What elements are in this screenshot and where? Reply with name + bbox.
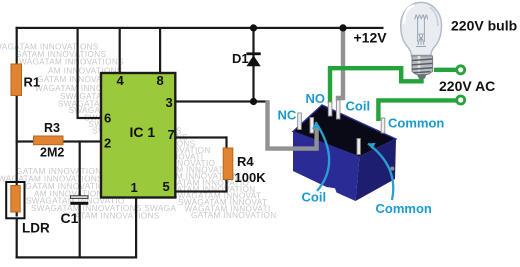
- svg-text:Coil: Coil: [302, 190, 327, 205]
- resistor R3 body: [34, 136, 64, 145]
- wire R4 vertical: [225, 136, 227, 192]
- svg-text:GATAM INNOVAT: GATAM INNOVAT: [37, 75, 107, 84]
- wire pin2 horizontal through R3: [16, 140, 103, 142]
- svg-text:7: 7: [168, 127, 175, 142]
- svg-text:+12V: +12V: [354, 30, 388, 46]
- resistor R1: [11, 64, 22, 96]
- bulb glass shading: [404, 6, 414, 25]
- node junction dot +12V: [339, 24, 346, 31]
- capacitor C1 top plate: [71, 196, 89, 199]
- svg-text:C1: C1: [61, 210, 79, 226]
- bulb base: [412, 56, 433, 75]
- gray wire pin3 to relay coil-left pin: [268, 100, 317, 148]
- relay pin NO: [328, 102, 332, 116]
- wire pin7 horizontal: [175, 136, 228, 138]
- diode D1 triangle: [246, 55, 260, 66]
- svg-text:4: 4: [117, 73, 125, 88]
- relay pin coil-left: [310, 118, 314, 134]
- svg-text:Common: Common: [388, 116, 444, 131]
- relay body top face: [293, 105, 396, 157]
- green wire relay common to AC terminal: [378, 100, 456, 121]
- gray wire +12V to relay coil pin: [338, 28, 343, 101]
- wire D1 vertical: [252, 27, 254, 102]
- svg-text:Coil: Coil: [346, 99, 371, 114]
- svg-text:3: 3: [166, 95, 173, 110]
- AC terminal ring top: [457, 66, 465, 74]
- svg-text:220V AC: 220V AC: [439, 78, 495, 94]
- svg-text:D1: D1: [232, 51, 249, 66]
- svg-text:NO: NO: [306, 91, 326, 106]
- LDR box: [6, 182, 24, 218]
- svg-text:2M2: 2M2: [40, 146, 64, 160]
- relay body front-right face: [356, 139, 397, 201]
- relay pin NC: [298, 113, 302, 130]
- diode D1 cathode bar: [246, 52, 260, 55]
- svg-text:NC: NC: [278, 108, 297, 123]
- svg-text:R4: R4: [237, 154, 254, 169]
- wire pin1 to bottom rail: [135, 197, 137, 258]
- bulb filament: [415, 15, 428, 47]
- wire top +12V rail: [16, 27, 384, 29]
- base tip: [417, 75, 427, 79]
- relay body front-left face: [293, 132, 360, 202]
- svg-text:5: 5: [163, 179, 170, 194]
- svg-text:100K: 100K: [235, 170, 267, 185]
- wire C1 bottom vertical: [79, 204, 81, 258]
- svg-text:R3: R3: [44, 121, 60, 135]
- wire pin8 to rail: [159, 27, 161, 74]
- svg-text:8: 8: [157, 73, 164, 88]
- wire pin3 horizontal: [175, 100, 268, 102]
- op-amp IC1 555 body: [101, 73, 175, 198]
- base ridges: [412, 59, 433, 73]
- wire C1 top vertical: [79, 140, 81, 197]
- svg-text:LDR: LDR: [22, 221, 50, 236]
- 220V bulb glass: [401, 2, 442, 56]
- watermark: [0, 43, 277, 221]
- capacitor C1 bottom plate: [70, 202, 88, 205]
- green wire bulb base to AC terminal: [434, 68, 456, 72]
- AC terminal ring bottom: [457, 96, 465, 104]
- relay pin common-bottom: [357, 139, 360, 155]
- svg-text:220V bulb: 220V bulb: [451, 18, 517, 34]
- svg-text:WAGATAM INNOVATIONS: WAGATAM INNOVATIONS: [19, 57, 124, 66]
- relay pin common-right: [381, 118, 385, 133]
- wire through LDR: [16, 183, 18, 217]
- svg-text:Common: Common: [376, 201, 432, 216]
- wire bottom ground rail: [16, 256, 138, 258]
- svg-text:2: 2: [104, 136, 111, 151]
- green wire relay NO to bulb base: [330, 68, 422, 104]
- wire pin5 horizontal: [175, 190, 228, 192]
- node junction dot D1 top on rail: [250, 24, 257, 31]
- resistor R4 body: [223, 148, 233, 180]
- wire pin4 to rail: [119, 27, 121, 74]
- svg-text:GATAM INNOVATION: GATAM INNOVATION: [191, 211, 277, 220]
- base highlight: [418, 56, 421, 74]
- svg-text:IC 1: IC 1: [130, 124, 156, 140]
- bulb neck ring: [411, 55, 432, 57]
- svg-text:6: 6: [104, 111, 111, 126]
- svg-text:1: 1: [131, 180, 138, 195]
- wire pin6 horizontal: [77, 117, 103, 119]
- arrow Coil to pin: [316, 122, 330, 191]
- wire left vertical rail: [16, 27, 18, 258]
- arrow Common to pin: [368, 144, 393, 201]
- relay pin coil-right: [336, 100, 340, 119]
- relay rivet dot: [390, 167, 394, 171]
- node junction dot D1 bottom pin3: [250, 98, 257, 105]
- svg-text:R1: R1: [24, 74, 41, 89]
- svg-text:ATAM INNOVATIONS: ATAM INNOVATIONS: [75, 212, 160, 221]
- wire pin6 vertical from rail: [77, 27, 79, 119]
- LDR resistor body: [11, 186, 20, 213]
